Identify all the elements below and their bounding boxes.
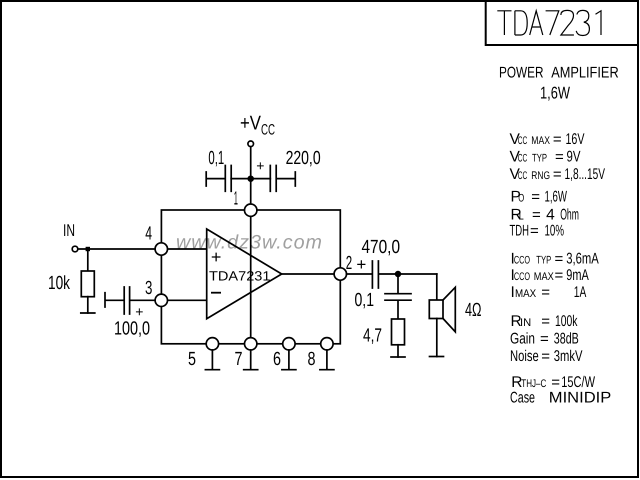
capacitor 100,0 (input) [105,287,155,314]
svg-text:+: + [256,157,264,173]
pin 8 [321,338,333,350]
svg-text:Gain: Gain [510,331,535,348]
ground pin 6 [282,350,296,370]
svg-text:CC: CC [518,135,528,147]
capacitor 0,1 (zobel) [385,294,411,301]
svg-text:=: = [540,331,549,348]
spec Vcc typ = 9V [510,149,581,166]
svg-text:CCO: CCO [514,271,530,283]
svg-text:100,0: 100,0 [114,319,150,340]
svg-text:38dB: 38dB [554,331,579,348]
svg-text:=: = [555,149,564,166]
svg-text:1,6W: 1,6W [540,84,570,103]
title TDA7231 (stick glyphs) [497,10,601,35]
svg-text:4: 4 [546,206,555,223]
wire pin 1 to pin 7 (internal vertical) [250,216,252,337]
svg-text:470,0: 470,0 [362,237,401,258]
ground pin 8 [320,350,334,370]
wire output node down to C 0,1 [397,274,399,293]
svg-text:Case: Case [510,390,535,407]
svg-text:MAX: MAX [515,288,537,300]
svg-text:=: = [541,284,550,301]
pin 1 [245,204,257,216]
svg-text:AMPLIFIER: AMPLIFIER [551,65,619,82]
svg-text:4: 4 [145,224,152,245]
svg-text:15C/W: 15C/W [561,374,595,391]
svg-text:L: L [519,210,524,222]
pin 5 [206,338,218,350]
svg-text:MAX: MAX [534,271,555,283]
svg-text:=: = [553,131,562,148]
svg-text:10k: 10k [48,273,70,294]
svg-text:+: + [356,255,366,274]
input terminal IN [72,246,78,252]
svg-text:THJ–C: THJ–C [521,378,546,390]
wire input node to R 10k [87,249,89,271]
svg-text:=: = [555,267,564,284]
svg-text:+: + [135,303,143,319]
spec Rthj-c = 15C/W [511,374,595,391]
ground pin 7 [244,350,258,370]
spec Vcc max = 16V [510,131,585,148]
spec Gain = 38dB [510,331,579,348]
spec Imax = 1A [511,284,587,301]
wire pin 4 to op-amp + input [168,248,207,250]
spec TDH = 10% [510,222,565,239]
svg-text:7: 7 [235,349,243,370]
svg-text:1: 1 [234,188,238,209]
power terminal +VCC [248,141,254,147]
svg-text:=: = [530,222,539,239]
wire C 470,0 to output node [398,273,437,275]
svg-text:1,6W: 1,6W [545,189,568,206]
svg-text:4Ω: 4Ω [465,300,482,321]
svg-text:O: O [518,193,524,205]
spec Po = 1,6W [511,189,568,206]
spec RL = 4 Ohm [511,206,579,223]
svg-text:0,1: 0,1 [355,290,375,311]
svg-text:MAX: MAX [531,135,550,147]
resistor 10k [81,271,94,297]
svg-text:MINIDIP: MINIDIP [549,390,612,407]
wire rail junction down to pin 1 [250,179,252,205]
op-amp triangle [207,229,282,319]
spec Vcc rng = 1,8...15V [510,166,606,183]
spec Rin = 100k [511,313,578,330]
svg-text:=: = [531,189,540,206]
resistor 4,7 [392,319,405,345]
svg-text:220,0: 220,0 [286,148,321,169]
ground R 4,7 [391,356,405,358]
svg-text:3: 3 [145,278,152,299]
svg-text:Ohm: Ohm [560,206,579,223]
junction output node [396,272,401,277]
wire IN to pin 4 [78,248,155,250]
svg-text:IN: IN [520,317,531,329]
svg-text:=: = [553,166,562,183]
svg-text:IN: IN [63,221,75,240]
wire output node to speaker [436,274,438,300]
pin 7 [245,338,257,350]
svg-text:4,7: 4,7 [363,326,382,347]
capacitor 220,0 (supply electrolytic) [270,166,295,192]
svg-text:=: = [541,348,550,365]
svg-text:9V: 9V [567,149,581,166]
spec Icco max = 9mA [511,267,590,284]
svg-text:1A: 1A [574,284,587,301]
ground pin 5 [205,350,219,370]
svg-text:+V: +V [240,113,262,135]
wire pin 2 to C 470,0 [347,273,373,275]
wire R 10k to ground [87,297,89,313]
svg-text:TYP: TYP [536,255,551,267]
ground R 10k [81,312,95,314]
junction Vcc node [248,176,253,181]
wire speaker to ground [436,319,438,357]
wire Vcc rail horizontal left (to C 0,1) [231,178,251,180]
op-amp - input mark [211,292,221,294]
wire Vcc terminal to rail junction [250,147,252,179]
svg-text:2: 2 [346,253,352,274]
capacitor 470,0 (output electrolytic) [372,261,398,288]
svg-text:CCO: CCO [514,255,530,267]
spec Icco typ = 3,6mA [511,251,600,268]
svg-text:8: 8 [308,349,316,370]
svg-text:TDA7231: TDA7231 [209,269,271,284]
spec Noise = 3mkV [510,348,583,365]
svg-text:6: 6 [273,349,281,370]
svg-text:=: = [555,251,564,268]
svg-text:CC: CC [518,170,528,182]
svg-text:www.dz3w.com: www.dz3w.com [176,232,323,254]
ground speaker [430,356,444,358]
svg-text:CC: CC [518,153,528,165]
svg-text:RNG: RNG [531,170,550,182]
junction input node [86,247,90,251]
speaker LS 4ohm [429,300,443,319]
pin 3 [155,294,167,306]
svg-text:TYP: TYP [532,153,547,165]
wire pin 3 to op-amp - input [168,299,207,301]
wire C 0,1 to R 4,7 [397,301,399,319]
svg-text:TDH: TDH [510,222,530,239]
svg-text:0,1: 0,1 [208,148,224,169]
svg-text:Noise: Noise [510,348,539,365]
wire op-amp output to pin 2 [282,273,334,275]
svg-text:1,8...15V: 1,8...15V [565,166,606,183]
svg-text:+: + [211,247,222,267]
pin 2 [334,268,346,280]
wire R 4,7 to ground [397,345,399,357]
capacitor 0,1 (supply bypass) [206,166,231,192]
pin 6 [283,338,295,350]
svg-text:5: 5 [188,349,196,370]
svg-text:3mkV: 3mkV [554,348,583,365]
svg-text:3,6mA: 3,6mA [566,251,599,268]
svg-text:=: = [532,206,541,223]
spec Case MINIDIP [510,390,611,407]
wire Vcc rail horizontal right (to C 220,0) [251,178,271,180]
IC U1 TDA7231 package outline [161,210,340,344]
svg-text:100k: 100k [555,313,578,330]
svg-text:16V: 16V [566,131,585,148]
svg-text:CC: CC [261,122,275,139]
svg-text:=: = [551,374,560,391]
pin 4 [155,243,167,255]
svg-text:10%: 10% [545,222,565,239]
svg-text:9mA: 9mA [566,267,589,284]
title box [486,1,638,45]
svg-text:=: = [541,313,550,330]
svg-text:POWER: POWER [499,65,544,82]
